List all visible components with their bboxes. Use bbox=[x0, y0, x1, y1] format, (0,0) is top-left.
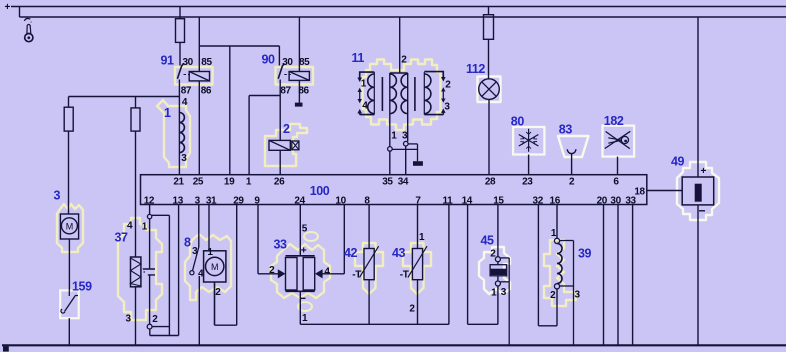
actuator 8 lever pivot circle bbox=[190, 271, 194, 275]
svg-text:34: 34 bbox=[398, 176, 409, 187]
wire rail B down to relay 90 pin 85 bbox=[298, 17, 300, 72]
highlight lambda sensor 45 bbox=[479, 247, 510, 294]
ignition coil 11 left secondary winding bbox=[368, 74, 375, 114]
lambda 45 top connector circle bbox=[495, 257, 500, 262]
wire coil 11 ground branch upper bbox=[408, 143, 417, 145]
highlight code key 182 bbox=[603, 126, 635, 157]
wire ECU pin 3 to actuator 8 switch bbox=[198, 205, 200, 248]
wire sensor 33 pin 1 down to sensor ground bus bbox=[299, 291, 301, 324]
svg-text:23: 23 bbox=[522, 176, 533, 187]
svg-text:6: 6 bbox=[613, 176, 619, 187]
wire capacitor to module 37 pin 2 bbox=[149, 275, 151, 324]
svg-text:-T: -T bbox=[352, 269, 361, 280]
svg-text:1: 1 bbox=[302, 313, 308, 324]
highlight switch 80 bbox=[513, 127, 544, 155]
svg-text:-T: -T bbox=[400, 269, 409, 280]
svg-text:30: 30 bbox=[282, 57, 293, 68]
wire code key 182 to ECU pin 6 bbox=[617, 157, 619, 175]
battery 49 cell bar bbox=[695, 184, 702, 202]
wire rail A down to fuse F1 bbox=[179, 7, 181, 19]
ground bar under ignition coil 11 bbox=[413, 161, 423, 166]
injector 2 coil box bbox=[269, 140, 290, 150]
wire actuator 8 pin 4 to ground rail bbox=[198, 276, 200, 345]
relay 91 switch contact bbox=[177, 64, 183, 79]
ground rail bottom bbox=[2, 344, 786, 346]
svg-text:49: 49 bbox=[671, 155, 685, 169]
battery 49 box bbox=[682, 177, 714, 205]
highlight connector bead 33b bbox=[298, 302, 312, 311]
wire ECU pin 7 to sensor 43 bbox=[417, 205, 419, 249]
coil 11 connector circle pin 3 bbox=[404, 141, 409, 146]
svg-text:3: 3 bbox=[575, 290, 581, 301]
wire rpm 39 pin 3 to ground rail bbox=[573, 241, 575, 346]
relay 90 switch contact bbox=[278, 64, 284, 79]
wire sensor 43 to sensor ground bus bbox=[417, 280, 419, 325]
wire to sensor 33 pin 2 bbox=[258, 273, 278, 275]
wire ground bus right section bbox=[468, 323, 498, 325]
svg-text:30: 30 bbox=[183, 57, 194, 68]
svg-text:2: 2 bbox=[283, 122, 290, 136]
sensor 43 diagonal strike bbox=[408, 246, 427, 277]
sensor 83 cup symbol bbox=[567, 149, 576, 153]
ECU 100 box bbox=[141, 175, 647, 205]
wire ECU pin 32 down bbox=[537, 205, 539, 326]
highlight fuel pump 3 bbox=[57, 204, 83, 252]
injector 2 valve cross bbox=[292, 141, 299, 150]
svg-text:18: 18 bbox=[634, 187, 645, 198]
svg-text:33: 33 bbox=[625, 195, 636, 206]
svg-text:1: 1 bbox=[491, 288, 497, 299]
svg-text:2: 2 bbox=[409, 304, 415, 315]
svg-text:87: 87 bbox=[181, 86, 192, 97]
wire ECU pin 24 to sensor 33 pin 5 bbox=[299, 205, 301, 256]
wire rail B down to ignition coil 11 feed bbox=[399, 17, 401, 73]
sensor 42 resistor box bbox=[364, 249, 374, 280]
ignition coil 11 left HT bracket bbox=[360, 72, 375, 115]
injector 2 coil diagonal bbox=[269, 140, 290, 150]
snowflake symbol 80 bbox=[519, 129, 539, 152]
svg-text:1: 1 bbox=[207, 247, 213, 258]
wire branch y46 from relay 91 85 feed to relay 90 pin 30 bbox=[199, 45, 279, 47]
wire module 37 pin 2 branch right bbox=[152, 326, 169, 328]
injector 2 valve box bbox=[292, 141, 299, 150]
svg-text:85: 85 bbox=[299, 57, 310, 68]
svg-text:112: 112 bbox=[466, 62, 485, 76]
lambda 45 element fill bbox=[491, 269, 507, 275]
wire down to relay 90 pin 30 bbox=[278, 46, 280, 66]
svg-text:3: 3 bbox=[181, 153, 187, 164]
highlight relay 90 bbox=[276, 67, 314, 85]
svg-text:39: 39 bbox=[578, 247, 592, 261]
svg-text:M: M bbox=[211, 262, 219, 272]
wire battery 49 minus to ground rail bbox=[697, 205, 699, 345]
svg-text:86: 86 bbox=[201, 86, 212, 97]
wire actuator 8 motor pin 2 down bbox=[214, 282, 216, 325]
wire rail B down to relay 91 pin 85 bbox=[198, 17, 200, 72]
svg-text:1: 1 bbox=[164, 106, 171, 120]
highlight injector 2 bbox=[265, 124, 307, 166]
wire relay 91 pin 87 down to ECU pin 21 bbox=[178, 80, 180, 175]
relay 91 coil box bbox=[189, 72, 209, 81]
svg-text:15: 15 bbox=[493, 195, 504, 206]
svg-text:16: 16 bbox=[550, 195, 561, 206]
svg-text:3: 3 bbox=[444, 102, 450, 113]
wire coil 11 pin 1 to ECU pin 35 bbox=[389, 151, 391, 175]
svg-text:100: 100 bbox=[310, 184, 330, 198]
fuse F2 bbox=[484, 15, 494, 40]
wire ECU pin 11 to sensor ground bus bbox=[448, 205, 450, 325]
wire F3 to fuel pump 3 bbox=[68, 131, 70, 214]
ignition key terminal symbol bbox=[24, 18, 30, 20]
fuel pump 3 box bbox=[60, 214, 78, 239]
wire ECU pin 31 to actuator 8 motor bbox=[208, 205, 210, 251]
sensor 43 resistor box bbox=[412, 249, 422, 280]
relay 90 coil diagonal bbox=[289, 72, 309, 81]
wire rail A to rail B drop bbox=[19, 7, 21, 18]
svg-text:83: 83 bbox=[559, 123, 573, 137]
svg-text:2: 2 bbox=[269, 265, 275, 276]
svg-text:182: 182 bbox=[604, 114, 624, 128]
svg-text:M: M bbox=[66, 222, 74, 232]
svg-text:11: 11 bbox=[352, 51, 365, 65]
highlight temp sensor 43 bbox=[403, 243, 431, 294]
svg-text:91: 91 bbox=[161, 54, 175, 68]
highlight temp sensor 42 bbox=[355, 243, 383, 294]
ignition coil 11 right primary winding bbox=[401, 74, 408, 114]
relay 90 coil linkage dashes bbox=[284, 74, 291, 76]
module 37 resistor box bbox=[131, 257, 141, 287]
ignition coil 11 right HT bracket bbox=[424, 72, 443, 115]
sensor 33 minus bbox=[301, 297, 306, 299]
svg-text:90: 90 bbox=[262, 53, 276, 67]
highlight coil 1 bbox=[157, 100, 190, 167]
svg-text:4: 4 bbox=[324, 267, 330, 278]
svg-text:80: 80 bbox=[511, 114, 525, 128]
battery 49 minus bbox=[699, 210, 705, 212]
wire branch down to ECU pin 19 bbox=[229, 46, 231, 175]
wire F1 to relay 91 pin 30 bbox=[179, 42, 181, 65]
fuel pump 3 motor circle bbox=[61, 218, 77, 234]
svg-text:1: 1 bbox=[551, 228, 557, 239]
wire relay 90 pin 87 down bbox=[279, 80, 281, 96]
highlight connector bead 33a bbox=[304, 232, 318, 241]
wire lamp 112 to ECU pin 28 bbox=[488, 99, 490, 174]
svg-text:4: 4 bbox=[127, 220, 133, 231]
svg-text:8: 8 bbox=[184, 236, 191, 250]
wire rpm 39 shield branch bottom bbox=[560, 285, 574, 287]
wire ECU pin 10 down bbox=[343, 205, 345, 274]
lamp 112 cross bbox=[482, 82, 497, 97]
relay 91 coil diagonal bbox=[189, 72, 209, 81]
svg-text:1: 1 bbox=[246, 176, 252, 187]
svg-text:19: 19 bbox=[224, 176, 235, 187]
wire ECU pin 9 down bbox=[257, 205, 259, 274]
svg-text:31: 31 bbox=[206, 195, 217, 206]
svg-text:2: 2 bbox=[152, 314, 158, 325]
wire injector 2 to ECU pin 26 bbox=[279, 150, 281, 174]
svg-text:45: 45 bbox=[481, 233, 495, 247]
svg-text:2: 2 bbox=[550, 290, 556, 301]
wire lambda 45 pin 3 branch top bbox=[500, 257, 509, 259]
svg-text:21: 21 bbox=[173, 176, 184, 187]
wire F4 to module 37 pin 4 bbox=[135, 131, 137, 257]
svg-text:35: 35 bbox=[382, 176, 393, 187]
wire top supply rail A bbox=[11, 6, 786, 8]
svg-text:159: 159 bbox=[72, 280, 92, 294]
svg-text:4: 4 bbox=[182, 97, 188, 108]
svg-text:2: 2 bbox=[215, 287, 221, 298]
wire U-link to ECU pin 29 bbox=[215, 324, 237, 326]
svg-text:7: 7 bbox=[415, 195, 421, 206]
wire lambda 45 pin 1 to ground bus bbox=[497, 286, 499, 324]
wire rail B down to battery 49 bbox=[697, 17, 699, 177]
lambda 45 bottom connector circle bbox=[495, 281, 500, 286]
wire ECU pin 13 down to link bar bbox=[178, 205, 180, 336]
highlight idle actuator 8 bbox=[185, 234, 231, 300]
wire down to fuse F3 bbox=[68, 97, 70, 108]
svg-text:1: 1 bbox=[391, 131, 397, 142]
wire coil 11 pin 3 to ECU pin 34 bbox=[405, 146, 407, 175]
wire relay 90 87 down to injector 2 bbox=[279, 96, 281, 141]
svg-text:25: 25 bbox=[193, 176, 204, 187]
svg-text:3: 3 bbox=[501, 287, 507, 298]
wire rpm 39 pin 2 down bbox=[556, 289, 558, 326]
wire F2 to lamp 112 bbox=[488, 39, 490, 79]
svg-text:+: + bbox=[301, 245, 307, 256]
wire rail A down to fuse F2 bbox=[488, 7, 490, 15]
fuse F3 bbox=[64, 107, 73, 131]
svg-text:3: 3 bbox=[54, 189, 61, 203]
coil 11 connector circle pin 1 bbox=[388, 147, 393, 152]
ignition coil 11 right core bbox=[414, 77, 416, 111]
fuse F1 bbox=[176, 19, 185, 43]
connector circle module 37 pin 2 bbox=[147, 324, 152, 329]
highlight module 37 bbox=[118, 218, 162, 320]
wire to module 37 capacitor bbox=[149, 219, 151, 269]
sensor 33 top bar bbox=[286, 255, 315, 257]
actuator 8 motor circle bbox=[206, 257, 224, 275]
ground bar under relay 90 bbox=[295, 103, 303, 107]
svg-text:1: 1 bbox=[419, 232, 425, 243]
svg-text:2: 2 bbox=[445, 80, 451, 91]
svg-text:5: 5 bbox=[302, 223, 308, 234]
code key 182 symbol bbox=[605, 131, 631, 148]
rpm sensor 39 winding bbox=[557, 244, 562, 284]
relay 90 coil box bbox=[289, 72, 309, 81]
lamp 112 circle bbox=[479, 79, 500, 100]
wire module 37 pin 3 to ground rail bbox=[135, 287, 137, 345]
actuator 8 motor box bbox=[204, 251, 226, 282]
wire ECU pin 8 to sensor 42 bbox=[368, 205, 370, 249]
lambda 45 element box bbox=[490, 265, 507, 276]
rpm 39 bottom connector circle bbox=[554, 284, 559, 289]
sensor 33 bottom bar bbox=[286, 290, 315, 292]
fuse F4 bbox=[131, 108, 140, 131]
ignition coil 11 left primary winding bbox=[390, 74, 397, 114]
wire sensor ground bus left section bbox=[300, 323, 449, 325]
highlight lamp 112 bbox=[478, 77, 501, 103]
wire ECU pin 12 down bbox=[149, 205, 151, 215]
wire down to ECU pin 1 bbox=[248, 96, 250, 175]
wire lambda 45 pin 3 branch bottom bbox=[500, 281, 509, 283]
ground block bottom left bbox=[3, 346, 9, 351]
svg-text:30: 30 bbox=[610, 195, 621, 206]
wire to sensor 33 pin 4 bbox=[322, 273, 344, 275]
wire ECU pin 18 to battery 49 bbox=[647, 190, 682, 192]
svg-text:42: 42 bbox=[344, 246, 358, 260]
wire fuel pump 3 to inertia switch 159 bbox=[68, 239, 70, 290]
wire ECU pin 16 to rpm sensor 39 pin 1 bbox=[556, 205, 558, 239]
svg-text:86: 86 bbox=[298, 86, 309, 97]
wire sensor 42 to sensor ground bus bbox=[368, 280, 370, 325]
sensor 42 diagonal strike bbox=[360, 246, 379, 277]
svg-text:1: 1 bbox=[142, 222, 148, 233]
svg-text:20: 20 bbox=[597, 195, 608, 206]
module 37 resistor zigzag bbox=[131, 258, 141, 286]
wire branch from relay 90 87 node bbox=[249, 95, 280, 97]
wire ECU pin 14 down bbox=[467, 205, 469, 325]
svg-text:2: 2 bbox=[401, 55, 407, 66]
highlight ignition coil 11 bbox=[363, 60, 441, 131]
svg-text:33: 33 bbox=[274, 237, 288, 251]
highlight inertia switch 159 bbox=[60, 290, 78, 318]
wire ECU pin 15 to lambda 45 pin 2 bbox=[497, 205, 499, 257]
wire ECU pin 33 to ground rail bbox=[632, 205, 634, 346]
wire down to fuse F4 bbox=[135, 97, 137, 108]
actuator 8 switch lever bbox=[193, 247, 199, 270]
svg-text:37: 37 bbox=[115, 231, 129, 245]
wire branch y96 from relay 91 87 bbox=[69, 96, 180, 98]
wire to rpm sensor 39 pin 2 bbox=[538, 325, 557, 327]
relay 91 coil linkage dashes bbox=[184, 74, 191, 76]
wire relay 90 pin 86 to ground bbox=[298, 80, 300, 102]
ignition coil 11 left core bbox=[381, 77, 383, 111]
svg-text:26: 26 bbox=[274, 176, 285, 187]
wire vertical branch x169 bbox=[168, 215, 170, 335]
wire relay 91 pin 86 to ECU pin 25 bbox=[198, 81, 200, 175]
svg-text:3: 3 bbox=[126, 314, 132, 325]
wire short drop under circle bbox=[149, 329, 151, 336]
svg-text:11: 11 bbox=[443, 195, 454, 206]
wire lambda 45 pin 3 to ground rail bbox=[508, 258, 510, 345]
svg-text:3: 3 bbox=[402, 131, 408, 142]
svg-text:4: 4 bbox=[362, 101, 368, 112]
wire branch from pin 12 circle bbox=[152, 214, 170, 216]
wire rpm 39 shield branch top bbox=[560, 240, 574, 242]
wire sensor 83 to ECU pin 2 bbox=[571, 154, 573, 175]
wire inertia switch 159 to ground rail bbox=[68, 318, 70, 345]
sensor 33 left element bbox=[286, 258, 298, 291]
connector circle ECU pin 12 bbox=[147, 214, 151, 218]
wire ECU pin 30 to ground rail bbox=[617, 205, 619, 346]
wire switch 80 to ECU pin 23 bbox=[528, 155, 530, 175]
svg-text:85: 85 bbox=[201, 57, 212, 68]
svg-text:3: 3 bbox=[195, 195, 201, 206]
svg-text:87: 87 bbox=[280, 86, 291, 97]
wire coil 11 ground branch lower bbox=[392, 148, 417, 150]
module 37 capacitor bbox=[143, 269, 155, 275]
coil 1 winding bbox=[179, 113, 184, 153]
highlight horn 83 bbox=[558, 136, 589, 157]
svg-text:+: + bbox=[5, 2, 11, 13]
svg-text:+: + bbox=[701, 166, 707, 177]
highlight battery 49 bbox=[677, 162, 719, 220]
wire top supply rail B bbox=[20, 16, 786, 18]
highlight throttle sensor 33 bbox=[271, 244, 330, 298]
svg-text:1: 1 bbox=[361, 78, 367, 89]
wire ECU pin 20 to ground rail bbox=[603, 205, 605, 346]
highlight relay 91 bbox=[175, 67, 213, 85]
highlight rpm sensor 39 bbox=[544, 240, 576, 306]
wire up to ECU pin 29 bbox=[236, 205, 238, 326]
svg-text:2: 2 bbox=[569, 176, 575, 187]
ignition coil 11 right secondary winding bbox=[424, 74, 431, 114]
inertia switch 159 lever bbox=[65, 290, 79, 311]
svg-text:28: 28 bbox=[485, 176, 496, 187]
svg-text:29: 29 bbox=[233, 195, 244, 206]
ignition coil 11 top bar bbox=[390, 72, 408, 74]
rpm 39 top connector circle bbox=[554, 238, 559, 243]
svg-text:43: 43 bbox=[392, 246, 406, 260]
wire bottom link bar bbox=[150, 335, 179, 337]
sensor 33 right element bbox=[303, 258, 315, 291]
